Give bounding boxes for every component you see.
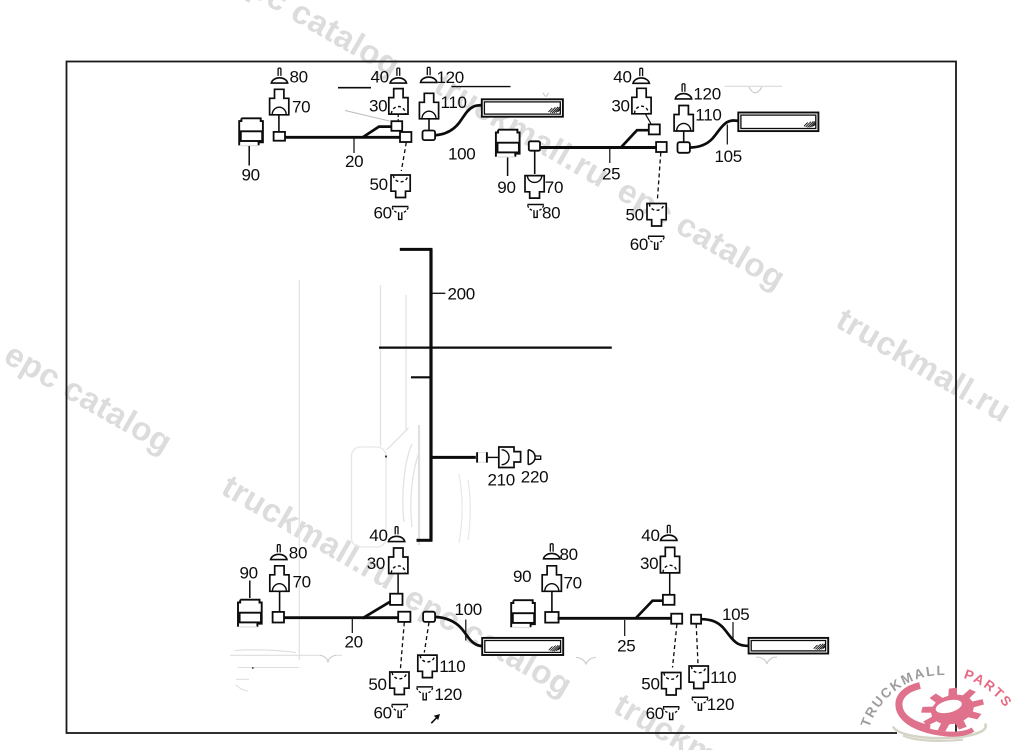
svg-text:110: 110 [695, 106, 721, 125]
stem 30-connector (bottom-right) [669, 573, 671, 595]
socket 70 (top-left) [270, 89, 289, 115]
svg-text:25: 25 [617, 637, 635, 656]
svg-text:60: 60 [630, 235, 648, 254]
elbow connector 30 (top-right) [649, 124, 660, 134]
long cross line [379, 347, 612, 349]
wire 20 (top-left) [285, 136, 402, 139]
svg-text:80: 80 [290, 68, 308, 87]
svg-text:40: 40 [371, 68, 389, 87]
connector 110 (top-left) [423, 131, 436, 141]
truckmall parts logo [858, 663, 1016, 741]
connector 110 (top-right) [678, 142, 690, 153]
svg-text:50: 50 [368, 675, 386, 694]
connector 100 (bottom-left) [423, 612, 435, 622]
svg-text:90: 90 [240, 564, 258, 583]
lamp bar (bottom-right) [749, 638, 829, 654]
connector wire end (bottom-right) [671, 614, 682, 624]
svg-text:60: 60 [374, 204, 392, 223]
dashed link to 110 (bottom-right) [696, 624, 698, 664]
lamp unit 90 (top-middle) [496, 130, 520, 157]
dashed link to 50 (bottom-right) [673, 624, 677, 667]
branch wire to 30 (bottom-right) [636, 601, 664, 619]
funnel 60 (top-right) [648, 236, 664, 249]
svg-text:90: 90 [242, 166, 260, 185]
leader for label 25 (top) [609, 149, 611, 164]
lamp unit 90 (bottom-middle) [511, 600, 535, 627]
bulb 40 (top-left) [390, 68, 406, 83]
elbow connector 30 (bottom-right) [663, 595, 675, 605]
leader for label 20 (bottom) [351, 619, 353, 633]
cable 105 (bottom-right) [702, 619, 749, 646]
funnel 80 (top-middle) [527, 205, 543, 218]
socket 110 (top-left) [419, 93, 438, 119]
link capsule-210 [488, 456, 499, 458]
stem 110-connector (top-right) [683, 131, 685, 142]
funnel 120 (bottom-left) [417, 687, 433, 700]
connector (top-middle) [529, 141, 540, 150]
check valve 210 [499, 447, 521, 468]
funnel 60 (top-left) [392, 207, 408, 220]
svg-text:20: 20 [345, 633, 363, 652]
leader for label 105 (bottom) [732, 622, 734, 640]
socket 30 (bottom-left) [389, 548, 408, 574]
lamp unit 90 (bottom-left) [238, 600, 262, 627]
link 30-connector (top-right) [645, 114, 651, 124]
svg-text:105: 105 [715, 147, 742, 166]
connector 105 (bottom-right) [691, 615, 701, 624]
cable 105 (top-right) [690, 120, 739, 147]
leader to connector (gray, top-left) [345, 111, 390, 122]
dashed link 30-connector [397, 115, 399, 122]
branch wire to 30 (top-right) [621, 130, 650, 148]
svg-text:50: 50 [641, 675, 659, 694]
dashed link to 110 (bottom-left) [424, 622, 429, 652]
socket 30 (bottom-right) [660, 547, 679, 573]
svg-text:110: 110 [439, 657, 465, 676]
svg-text:80: 80 [289, 544, 307, 563]
socket 70 (bottom-left) [270, 566, 289, 592]
connector (bottom-middle) [545, 612, 558, 623]
dashed link to 50 (top-right) [657, 153, 661, 202]
harness 200 vertical [429, 249, 432, 540]
leader for label 100 (bottom) [465, 620, 467, 641]
svg-text:220: 220 [521, 468, 548, 487]
branch wire to lamp connector 30 (top-left) [362, 127, 392, 138]
stem 30-connector (bottom-left) [397, 574, 399, 594]
nozzle 220 [528, 450, 541, 465]
wire 25 (top-right) [540, 146, 657, 149]
svg-text:30: 30 [369, 97, 387, 116]
leader for label 25 (bottom) [624, 620, 626, 636]
svg-text:70: 70 [564, 574, 582, 593]
socket 50 (bottom-left) [390, 672, 409, 695]
svg-text:40: 40 [613, 68, 631, 87]
elbow connector 30 (bottom-left) [390, 594, 402, 605]
svg-text:30: 30 [367, 554, 385, 573]
svg-text:120: 120 [437, 68, 464, 87]
connector wire left end (bottom-left) [273, 612, 284, 623]
socket 110 (bottom-right) [689, 666, 708, 689]
bulb 120 (top-left) [421, 67, 437, 82]
branch wire to 30 (bottom-left) [363, 601, 391, 618]
stem 70-wire (bottom-left) [279, 592, 281, 613]
lamp bar (bottom-left) [482, 638, 563, 655]
capsule connector before 210 [476, 452, 487, 462]
bulb 80 (bottom-left) [271, 545, 287, 560]
harness top cap [400, 248, 433, 251]
svg-text:25: 25 [602, 165, 620, 184]
svg-text:40: 40 [369, 526, 387, 545]
svg-text:120: 120 [434, 685, 461, 704]
svg-text:80: 80 [542, 204, 560, 223]
svg-text:120: 120 [693, 85, 720, 104]
socket 70 (bottom-middle) [542, 566, 561, 592]
bulb 80 (top-left) [271, 68, 287, 83]
wire 20 (bottom-left) [284, 616, 399, 619]
socket 70 (top-middle, flipped) [525, 176, 544, 199]
stem 70-wire [278, 115, 280, 132]
svg-text:30: 30 [640, 554, 658, 573]
leader for label 105 (top) [726, 125, 728, 145]
connector wire end (top-right) [656, 142, 667, 152]
branch wire to 210 [433, 456, 477, 459]
stem connector-70 (top-middle) [534, 151, 536, 174]
svg-text:30: 30 [611, 97, 629, 116]
svg-text:80: 80 [560, 545, 578, 564]
stem 90 (bottom-left) [249, 581, 251, 599]
svg-text:70: 70 [292, 98, 310, 117]
elbow connector 30 (top-left) [391, 121, 402, 131]
socket 50 (bottom-right) [662, 673, 681, 696]
socket 110 (bottom-left) [418, 655, 437, 678]
svg-text:120: 120 [707, 695, 734, 714]
socket 30 (top-left) [389, 89, 408, 115]
diagram border frame [67, 62, 957, 734]
connector wire right end (bottom-left) [398, 612, 410, 622]
socket 50 (top-left) [391, 175, 410, 198]
bulb 40 (bottom-right) [661, 525, 677, 540]
stem 90 (top-middle) [507, 158, 509, 177]
short tick on harness [411, 376, 432, 378]
small arrow marker [431, 714, 440, 723]
wire 25 (bottom-right) [558, 617, 672, 620]
svg-text:70: 70 [293, 573, 311, 592]
socket 30 (top-right) [632, 88, 651, 114]
bulb 120 (top-right) [675, 84, 691, 99]
dashed link to 50 (top-left) [401, 142, 406, 171]
svg-text:210: 210 [488, 471, 515, 490]
connector on wire left end (top-left) [274, 132, 285, 141]
funnel 60 (bottom-right) [663, 707, 679, 720]
svg-text:50: 50 [626, 206, 644, 225]
stem 90 [248, 146, 250, 166]
short line above 30 (top-left) [338, 87, 371, 89]
socket 50 (top-right) [647, 204, 666, 227]
svg-text:90: 90 [513, 567, 531, 586]
socket 110 (top-right) [674, 106, 693, 132]
svg-text:60: 60 [374, 704, 392, 723]
svg-text:60: 60 [646, 704, 664, 723]
cable 100 (bottom-left) [435, 617, 482, 646]
funnel 60 (bottom-left) [392, 705, 408, 718]
svg-text:110: 110 [710, 668, 736, 687]
stem 110-connector [428, 119, 430, 131]
faint chassis sketch [230, 86, 782, 691]
stem 70-connector (bottom-middle) [551, 592, 553, 613]
leader for label 20 [353, 138, 355, 153]
bulb 40 (bottom-left) [388, 527, 404, 542]
svg-text:110: 110 [441, 93, 467, 112]
dashed link to 50 (bottom-left) [400, 622, 404, 670]
svg-text:40: 40 [641, 526, 659, 545]
svg-text:105: 105 [722, 605, 749, 624]
cable 100 (top-left) [435, 105, 483, 135]
lamp unit 90 (top-left) [239, 118, 263, 145]
funnel 120 (bottom-right) [692, 697, 708, 710]
bulb 40 (top-right) [633, 68, 649, 83]
leader for label 200 [433, 292, 446, 294]
svg-text:100: 100 [448, 145, 475, 164]
svg-text:100: 100 [455, 600, 482, 619]
short line above 120 [452, 86, 511, 88]
svg-text:200: 200 [448, 285, 475, 304]
svg-text:90: 90 [497, 178, 515, 197]
lamp bar (top-left) [482, 99, 563, 116]
svg-text:70: 70 [545, 178, 563, 197]
bulb 80 (bottom-middle) [544, 544, 560, 559]
svg-text:50: 50 [370, 175, 388, 194]
connector wire right end (top-left) [400, 132, 411, 142]
lamp bar (top-right) [738, 113, 818, 132]
harness bottom cap [417, 539, 433, 542]
svg-text:20: 20 [345, 152, 363, 171]
